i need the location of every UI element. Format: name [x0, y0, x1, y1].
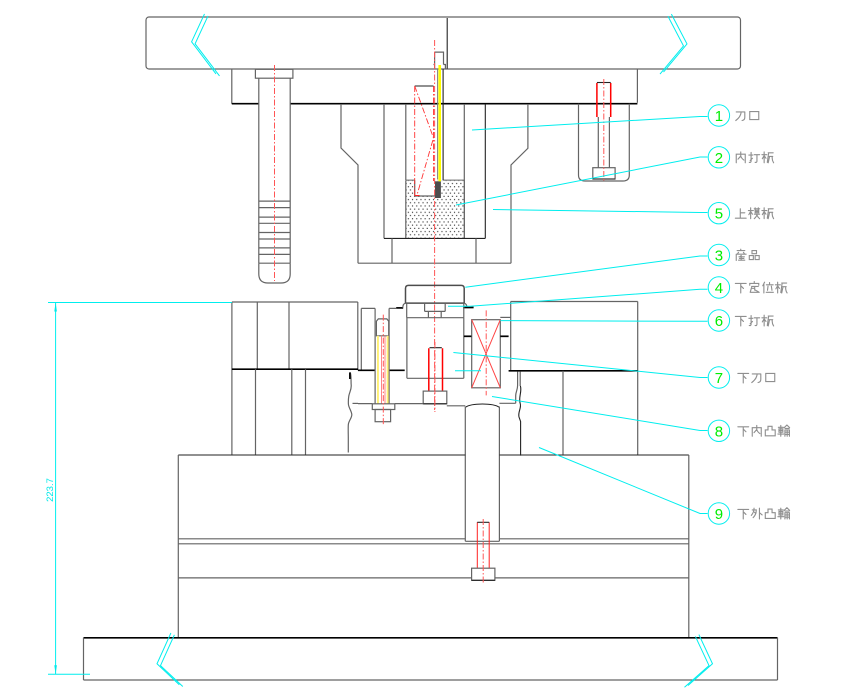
sub-plate verticals below stripper	[392, 238, 476, 263]
inner stripper hatch block	[406, 180, 465, 238]
strip material (yellow)	[438, 65, 441, 181]
balloon circle 1	[708, 105, 729, 126]
break chevron left (top plate)	[192, 14, 220, 76]
middle right block bold mid line	[509, 370, 638, 372]
blank piece (dark) at punch tip	[435, 181, 441, 198]
leader 7	[453, 353, 707, 378]
label text 9: xia wai tu lun	[738, 508, 790, 519]
balloon circle 2	[708, 147, 729, 168]
stripper bottom bold segments around left bolt	[358, 369, 405, 371]
bottom bolt centerline	[482, 519, 484, 583]
middle right block	[511, 302, 638, 456]
leader 1	[472, 117, 708, 131]
break chevron right (top plate)	[660, 14, 687, 74]
wavy break line right	[516, 372, 521, 404]
left bolt centerline	[382, 315, 384, 425]
leader 6	[500, 320, 707, 323]
leader 9	[539, 448, 708, 514]
black ledge right of X block	[500, 335, 508, 337]
stripper top black ledge right of product	[463, 307, 474, 309]
wavy break line left	[348, 372, 352, 452]
svg-text:9: 9	[715, 506, 723, 523]
lower knife X block	[472, 320, 501, 388]
guide post centerline	[274, 65, 276, 281]
bottom bolt head	[472, 568, 495, 580]
dimension vertical line	[55, 303, 57, 675]
stripper bottom thin line segments	[358, 403, 516, 406]
balloon circle 9	[708, 503, 729, 524]
black ledge left of X block	[464, 335, 472, 337]
bottom block band line 1	[178, 538, 689, 540]
left bolt yellow guide strips	[377, 336, 379, 404]
base plate top bold	[84, 637, 778, 639]
guide post flange	[255, 69, 293, 78]
middle left block bold mid line	[232, 368, 358, 370]
svg-text:223.7: 223.7	[45, 478, 56, 502]
upper right bolt centerline	[603, 79, 605, 182]
strip guide line right	[442, 69, 444, 180]
left shoulder bolt head	[376, 319, 388, 336]
left shoulder bolt slot walls	[375, 308, 389, 403]
top plate (upper shoe)	[146, 17, 741, 69]
central block walls	[407, 318, 464, 379]
middle left block upper band	[232, 302, 358, 455]
label text 4: xia ding wei ban	[735, 282, 787, 293]
upper die plate bottom	[358, 262, 511, 264]
left bolt nut lower	[375, 410, 391, 422]
center bolt shaft red	[429, 348, 443, 391]
upper right bolt lower shaft	[598, 117, 609, 168]
bottom bolt cap	[477, 521, 489, 523]
label text 2: nei da ban	[736, 152, 773, 163]
bottom bolt head bottom	[472, 579, 495, 581]
punch phantom diagonals	[415, 86, 434, 195]
leader 4	[448, 289, 708, 306]
svg-text:2: 2	[715, 150, 723, 167]
base plate body	[84, 638, 778, 680]
svg-text:7: 7	[715, 370, 723, 387]
left bolt nut	[372, 404, 395, 410]
svg-text:6: 6	[715, 313, 723, 330]
base break chevron right	[685, 635, 713, 688]
bottom block sides	[178, 455, 689, 638]
bottom block band line 3	[178, 577, 689, 579]
middle left lower band verticals	[256, 369, 306, 455]
support pillar walls	[465, 407, 499, 542]
guide post ribs	[259, 201, 290, 263]
bottom center bolt shaft	[477, 522, 489, 568]
svg-text:3: 3	[715, 248, 723, 265]
cyan tick on stripper surface	[455, 370, 481, 372]
leader 8	[492, 397, 708, 431]
punch (phantom red outline)	[415, 86, 434, 196]
label text 1: dao kou	[736, 112, 759, 121]
upper die plate outer profile left	[341, 104, 358, 263]
upper holder plate	[232, 69, 638, 104]
product brim left	[403, 303, 406, 308]
guide post bottom cap	[259, 263, 290, 283]
label text 5: shang mo ban	[735, 208, 773, 219]
balloon circle 3	[708, 244, 729, 265]
stripper bottom bold line	[384, 237, 485, 239]
dimension arrow bottom	[54, 665, 57, 674]
center bolt cap	[430, 347, 442, 349]
svg-text:5: 5	[715, 206, 723, 223]
center bolt head	[423, 391, 447, 404]
balloon circle 8	[708, 420, 729, 441]
leader 3	[465, 256, 707, 287]
strip guide line left	[437, 69, 439, 180]
upper die inner wall left2	[405, 104, 407, 180]
product (hat shaped part)	[406, 285, 465, 303]
label text 8: xia nei tu lun	[738, 425, 790, 436]
upper die inner wall right1	[463, 104, 465, 238]
upper die inner wall left	[383, 104, 385, 238]
upper right bolt nut	[593, 168, 615, 179]
pillar dome top	[465, 404, 499, 407]
dimension extension line bottom	[48, 673, 90, 675]
upper right bolt housing	[579, 104, 630, 181]
label text 7: xia dao kou	[738, 374, 775, 383]
positioning plate with notch	[407, 303, 464, 318]
svg-text:4: 4	[715, 280, 723, 297]
notch ledge right of X	[500, 316, 510, 318]
leader 2	[456, 157, 708, 205]
upper die plate outer profile right	[511, 104, 528, 263]
upper holder plate bottom bold line	[232, 103, 638, 105]
guide post shaft	[259, 78, 290, 263]
dimension arrow top	[54, 303, 57, 312]
left bolt red shaft lines	[382, 336, 386, 404]
svg-text:8: 8	[715, 423, 723, 440]
X block diagonals	[472, 320, 501, 388]
stripper top black ledge left	[396, 307, 403, 309]
base break chevron left	[157, 633, 183, 687]
balloon circle 5	[708, 203, 729, 224]
punch slot walls	[415, 180, 435, 196]
bottom block band line 2	[178, 543, 689, 545]
upper right bolt nut bottom	[593, 178, 615, 180]
balloon circle 7	[708, 367, 729, 388]
middle right lower band verticals	[562, 371, 564, 455]
dimension extension line top	[48, 302, 232, 304]
balloon circle 6	[708, 310, 729, 331]
main centerline	[434, 40, 436, 410]
upper die inner wall right2	[484, 104, 486, 238]
bottom block top edge	[178, 454, 689, 456]
center bolt centerline	[434, 342, 436, 412]
top plate divider line	[446, 18, 448, 69]
X block centerline	[485, 310, 487, 395]
lower stripper housing (left bolt) top	[361, 308, 396, 370]
leader 5	[493, 210, 708, 213]
product brim right	[464, 303, 467, 308]
balloon circle 4	[708, 277, 729, 298]
center bolt head bottom	[423, 403, 447, 405]
label text 3: chan pin	[736, 249, 759, 260]
upper right bolt cap	[597, 82, 611, 84]
svg-text:1: 1	[715, 108, 723, 125]
label text 6: xia da ban	[735, 315, 773, 326]
upper right bolt red section	[597, 83, 611, 117]
punch top black edge	[415, 85, 434, 87]
punch keeper block in top plate	[434, 52, 446, 69]
